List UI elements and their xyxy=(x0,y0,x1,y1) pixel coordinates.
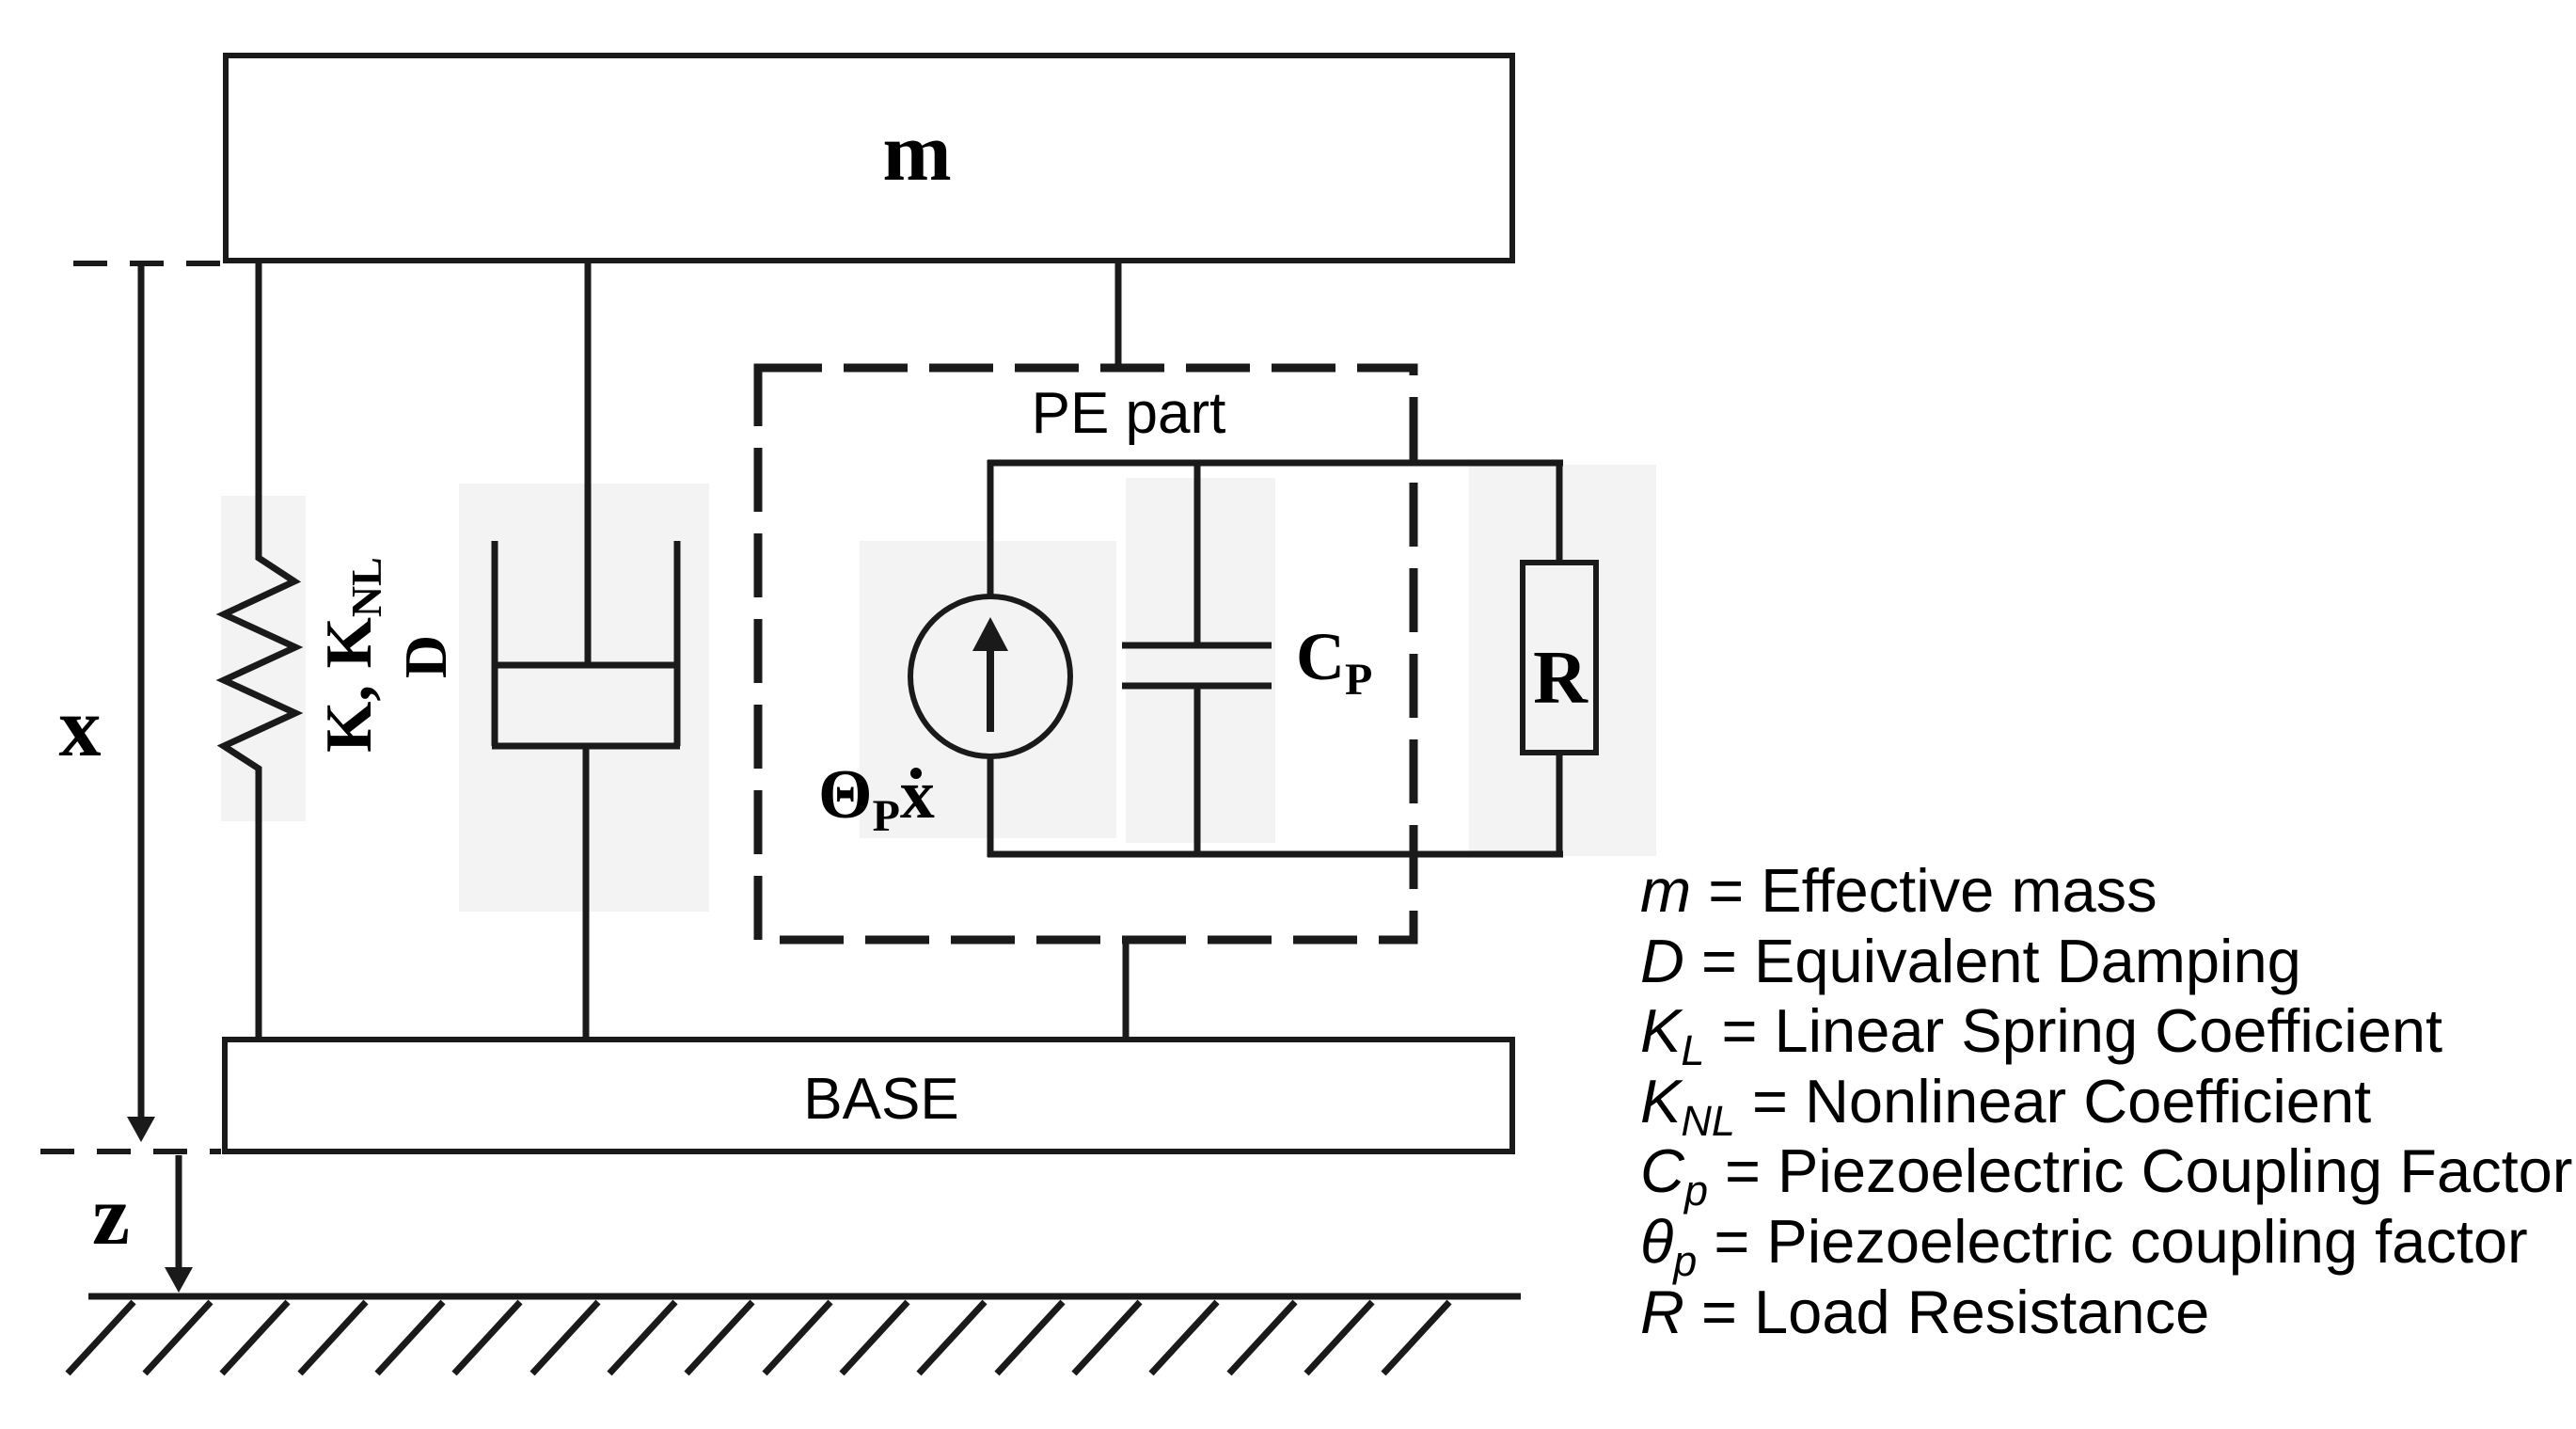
svg-text:Cp = Piezoelectric Coupling Fa: Cp = Piezoelectric Coupling Factor xyxy=(1640,1136,2572,1215)
svg-text:KL = Linear Spring Coefficient: KL = Linear Spring Coefficient xyxy=(1640,996,2442,1074)
svg-text:R: R xyxy=(1533,637,1588,720)
svg-text:x: x xyxy=(59,681,102,774)
svg-text:θp = Piezoelectric coupling fa: θp = Piezoelectric coupling factor xyxy=(1640,1207,2528,1285)
svg-text:m: m xyxy=(882,107,951,198)
svg-text:D = Equivalent Damping: D = Equivalent Damping xyxy=(1640,927,2301,995)
svg-text:R = Load Resistance: R = Load Resistance xyxy=(1640,1278,2209,1346)
svg-text:PE part: PE part xyxy=(1032,381,1226,446)
svg-text:m = Effective mass: m = Effective mass xyxy=(1640,856,2157,925)
svg-text:D: D xyxy=(392,635,459,678)
svg-text:z: z xyxy=(92,1169,130,1262)
svg-text:KNL = Nonlinear Coefficient: KNL = Nonlinear Coefficient xyxy=(1640,1067,2371,1145)
svg-text:BASE: BASE xyxy=(803,1067,958,1132)
